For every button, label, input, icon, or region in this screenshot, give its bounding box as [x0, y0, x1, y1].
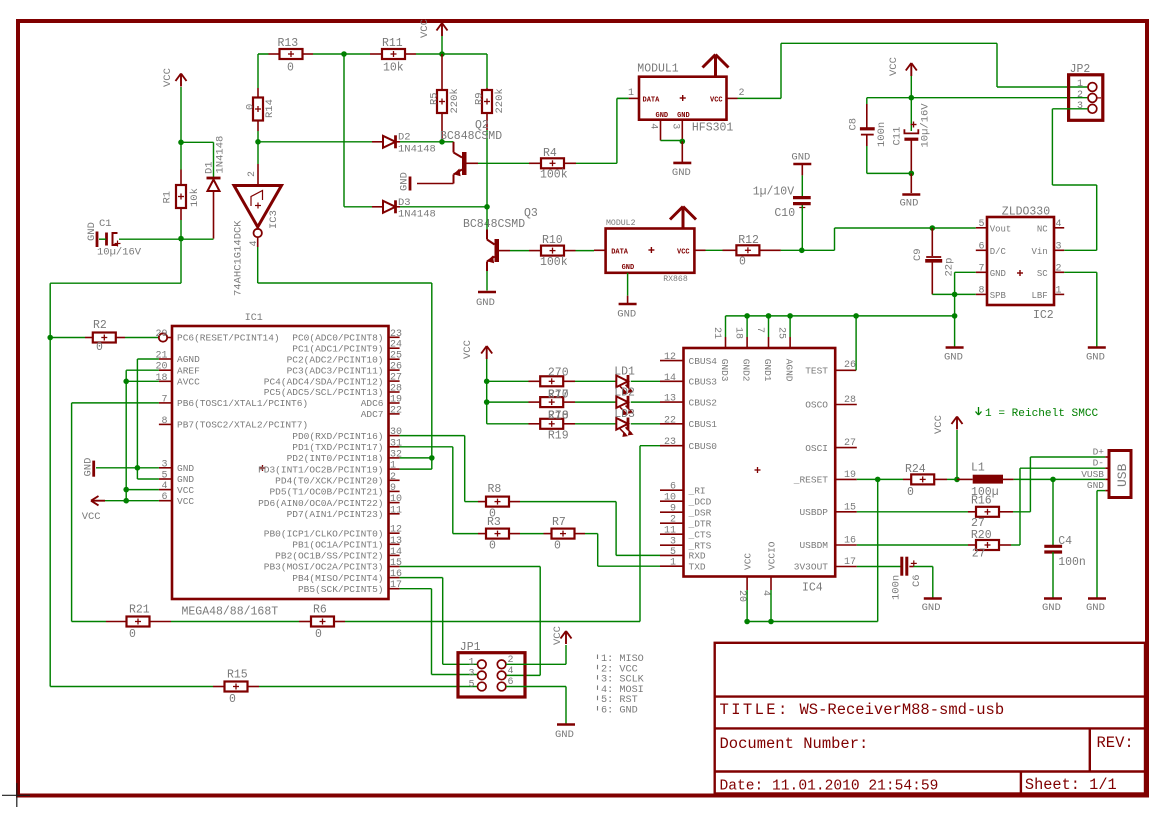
- svg-text:GND2: GND2: [741, 359, 752, 382]
- svg-text:74AHC1G14DCK: 74AHC1G14DCK: [233, 220, 245, 296]
- svg-text:PB2(OC1B/SS/PCINT2): PB2(OC1B/SS/PCINT2): [275, 551, 383, 562]
- IC1 pin 16 PB4: [389, 577, 400, 579]
- wire rail to R9 drop: [442, 53, 487, 55]
- IC4 pin 15 USBDP: [835, 511, 857, 513]
- svg-text:ADC6: ADC6: [361, 398, 384, 409]
- svg-text:Vin: Vin: [1031, 247, 1047, 257]
- IC1 pin 10 PD6: [389, 502, 400, 504]
- resistor R18 270: [529, 401, 541, 403]
- svg-text:PC3(ADC3/PCINT11): PC3(ADC3/PCINT11): [287, 365, 384, 376]
- svg-text:R14: R14: [264, 99, 276, 118]
- svg-text:10: 10: [664, 493, 676, 504]
- svg-text:270: 270: [548, 367, 569, 380]
- svg-text:6: 6: [978, 241, 984, 252]
- svg-text:220k: 220k: [494, 88, 506, 113]
- wire junction to D1 branch: [181, 141, 214, 143]
- title block row line above Date: [715, 770, 1145, 772]
- svg-text:OSCI: OSCI: [805, 443, 828, 454]
- svg-text:23: 23: [390, 329, 402, 340]
- svg-text:PB7(TOSC2/XTAL2/PCINT7): PB7(TOSC2/XTAL2/PCINT7): [177, 420, 308, 431]
- node junction VCC/L1: [954, 477, 960, 483]
- wire PB4 MISO to JP1 pin1: [400, 577, 443, 579]
- IC1 pin 15 PB3: [389, 566, 400, 568]
- wire USBDM to R20: [857, 544, 968, 546]
- svg-text:DATA: DATA: [643, 97, 661, 105]
- node junction rail/D3 drop: [341, 51, 347, 57]
- IC1 pin 13 PB1: [389, 543, 400, 545]
- svg-text:10k: 10k: [189, 188, 201, 207]
- IC4 pin 27 OSCI: [835, 447, 857, 449]
- svg-text:0: 0: [907, 486, 914, 499]
- IC1 pin 5 GND: [159, 478, 172, 480]
- svg-text:27: 27: [844, 438, 856, 449]
- svg-text:0: 0: [129, 628, 136, 641]
- ground GND at Q3 emitter: [478, 291, 496, 294]
- svg-text:VCC: VCC: [162, 68, 174, 87]
- svg-text:23: 23: [664, 437, 676, 448]
- node junction VCC pin20: [744, 619, 750, 625]
- svg-text:R9: R9: [474, 92, 486, 105]
- wire JP1 pin6 to GND: [506, 686, 566, 688]
- IC1 pin 14 PB2: [389, 554, 400, 556]
- svg-text:20: 20: [155, 362, 167, 373]
- svg-text:PD5(T1/OC0B/PCINT21): PD5(T1/OC0B/PCINT21): [269, 487, 383, 498]
- svg-text:9: 9: [670, 504, 676, 515]
- svg-text:GND: GND: [990, 269, 1006, 279]
- svg-text:VCC: VCC: [552, 626, 564, 645]
- LED LD1: [616, 376, 628, 388]
- IC4 pin 6 _RI: [660, 489, 684, 491]
- svg-text:GND: GND: [656, 112, 669, 120]
- svg-text:10k: 10k: [383, 62, 404, 75]
- node junction TEST drop: [853, 313, 859, 319]
- IC1 pin 23 PC0: [389, 336, 400, 338]
- svg-text:TXD: TXD: [689, 561, 706, 572]
- svg-text:VCC: VCC: [933, 415, 945, 434]
- svg-text:R21: R21: [129, 604, 150, 617]
- svg-text:R2: R2: [93, 319, 107, 332]
- svg-text:28: 28: [390, 384, 402, 395]
- svg-text:1N4148: 1N4148: [215, 136, 227, 174]
- IC1 pin 22 ADC7: [389, 413, 400, 415]
- MODUL1 pin 2 VCC: [727, 97, 738, 99]
- wire junction down to R1: [180, 142, 182, 169]
- wire GND vertical: [954, 272, 956, 346]
- antenna arrow MODUL1: [714, 56, 717, 77]
- svg-text:PB5(SCK/PCINT5): PB5(SCK/PCINT5): [298, 584, 384, 595]
- svg-text:JP1: JP1: [460, 641, 481, 654]
- wire MODUL1 gnd pins join: [661, 140, 683, 142]
- svg-text:GND: GND: [177, 474, 194, 485]
- svg-text:27: 27: [972, 548, 986, 561]
- svg-text:GND: GND: [617, 309, 636, 321]
- IC2 pin 8 SPB: [976, 293, 987, 295]
- wire VCC stem to junction: [956, 430, 958, 479]
- node junction D2/R5/Q2: [439, 139, 445, 145]
- wire MODUL1 DATA net down to R4 row: [617, 97, 629, 99]
- svg-text:3: 3: [670, 123, 681, 129]
- wire junction to C8: [867, 97, 912, 99]
- svg-text:SC: SC: [1037, 269, 1048, 279]
- resistor R3 0: [478, 533, 486, 535]
- capacitor C9 22p: [931, 228, 933, 256]
- IC4 top pins GND3/GND2/GND1/AGND: [725, 337, 727, 348]
- svg-text:25: 25: [390, 351, 402, 362]
- ground GND below C6: [924, 597, 942, 600]
- wire junction right to D2: [258, 141, 372, 143]
- svg-text:30: 30: [390, 427, 402, 438]
- capacitor C10 1u/10V: [801, 175, 803, 197]
- LED LD3: [616, 418, 628, 430]
- svg-text:VCC: VCC: [743, 553, 754, 570]
- svg-text:GND: GND: [1042, 602, 1061, 614]
- IC IC4 box: [684, 348, 836, 577]
- svg-text:ZLDO330: ZLDO330: [1002, 206, 1050, 219]
- svg-text:2: 2: [247, 171, 258, 177]
- IC1 pin 31 PD1: [389, 446, 400, 448]
- wire PD0 to R8: [400, 435, 465, 437]
- wire R8 to IC4 RXD: [520, 501, 616, 503]
- svg-text:220k: 220k: [449, 88, 461, 113]
- origin cross IC2: [1017, 272, 1023, 274]
- resistor R21 0: [72, 621, 106, 623]
- resistor R8 0: [465, 501, 478, 503]
- wire Q2 base to R4: [478, 162, 529, 164]
- wire vertical x344 to D3: [343, 54, 345, 207]
- svg-text:R15: R15: [227, 669, 248, 682]
- wire VCC/VCCIO to rail: [746, 590, 748, 622]
- IC4 pin 17 3V3OUT: [835, 566, 857, 568]
- svg-text:GND: GND: [476, 297, 495, 309]
- connector JP1 box: [458, 653, 525, 697]
- IC2 pin 5 Vout: [976, 227, 987, 229]
- title block divider Sheet: [1020, 772, 1022, 794]
- title block row line above TITLE: [715, 695, 1145, 697]
- svg-text:R13: R13: [278, 37, 299, 50]
- JP2 pin 1: [1088, 83, 1097, 92]
- IC4 pin 12 CBUS4: [660, 360, 684, 362]
- IC1 pin 20 AREF: [159, 369, 172, 371]
- svg-text:Vout: Vout: [990, 224, 1012, 234]
- node junction R14/IC3 input: [255, 139, 261, 145]
- svg-text:_CTS: _CTS: [688, 529, 712, 540]
- wire R24 to VCC junction: [947, 478, 957, 480]
- wire R20 to D-: [1011, 544, 1020, 546]
- svg-text:17: 17: [844, 557, 856, 568]
- svg-text:CBUS1: CBUS1: [689, 419, 718, 430]
- wire Q3 base to R10: [510, 250, 529, 252]
- resistor R14 0 (vertical): [257, 88, 259, 98]
- IC1 pin 30 PD0: [389, 435, 400, 437]
- resistor R13 0 (horizontal): [258, 53, 269, 55]
- JP1 pin 5: [478, 682, 487, 691]
- IC1 pin 26 PC3: [389, 369, 400, 371]
- svg-text:AGND: AGND: [177, 354, 200, 365]
- wire R3 to R7: [520, 533, 544, 535]
- svg-text:14: 14: [664, 373, 676, 384]
- node junction AGND: [787, 313, 793, 319]
- svg-text:MODUL1: MODUL1: [637, 63, 679, 76]
- svg-text:R1: R1: [162, 191, 174, 204]
- svg-text:4: 4: [648, 123, 659, 129]
- wire VCC stem: [910, 76, 912, 98]
- supply VCC arrow (pointing left): [91, 496, 99, 501]
- svg-text:_DTR: _DTR: [688, 518, 712, 529]
- svg-text:25: 25: [776, 327, 787, 339]
- svg-text:12: 12: [390, 525, 402, 536]
- node junction MODUL1 gnd: [680, 139, 686, 145]
- svg-text:GND: GND: [622, 264, 635, 272]
- node junction VCCIO pin4: [768, 619, 774, 625]
- svg-text:D/C: D/C: [990, 247, 1007, 257]
- IC1 pin 1 PD3: [389, 468, 400, 470]
- wire IC2 SC pin2 to GND: [1064, 271, 1097, 273]
- origin cross IC1: [260, 467, 266, 469]
- resistor R2 0: [50, 337, 85, 339]
- svg-text:AREF: AREF: [177, 365, 200, 376]
- svg-text:LD1: LD1: [614, 365, 635, 378]
- wire R12 to junction: [781, 249, 802, 251]
- svg-text:MODUL2: MODUL2: [606, 219, 636, 228]
- IC2 pin 7 GND: [976, 271, 987, 273]
- IC4 pin 22 CBUS1: [660, 423, 684, 425]
- svg-text:C9: C9: [912, 248, 924, 261]
- svg-text:DATA: DATA: [611, 249, 629, 257]
- resistor R12 0: [723, 249, 737, 251]
- svg-text:GND1: GND1: [762, 359, 773, 382]
- svg-text:R8: R8: [488, 483, 502, 496]
- svg-text:R12: R12: [738, 234, 759, 247]
- svg-text:7: 7: [978, 263, 984, 274]
- resistor R11 10k (horizontal): [370, 53, 382, 55]
- JP1 pin 2: [497, 660, 506, 669]
- svg-text:19: 19: [844, 470, 856, 481]
- wire R19 to LED LD3: [575, 423, 616, 425]
- node junction VCC pin6: [123, 498, 129, 504]
- ground GND at Q2 emitter (rotated): [417, 183, 454, 185]
- IC1 pin 19 ADC6: [389, 402, 400, 404]
- wire D2 to Q2 junction: [400, 141, 442, 143]
- IC4 pin 3 _RTS: [660, 544, 684, 546]
- JP2 pin 3: [1088, 104, 1097, 113]
- wire to GND symbol: [681, 141, 683, 162]
- svg-text:15: 15: [844, 502, 856, 513]
- resistor R7 0: [544, 533, 552, 535]
- svg-text:R24: R24: [905, 463, 926, 476]
- svg-text:Q3: Q3: [524, 207, 538, 220]
- svg-text:6: 6: [670, 482, 676, 493]
- IC4 pin 1 TXD: [660, 565, 684, 567]
- svg-text:18: 18: [155, 373, 167, 384]
- IC1 pin 29 PC6: [167, 337, 172, 339]
- svg-text:1 = Reichelt SMCC: 1 = Reichelt SMCC: [985, 408, 1099, 420]
- svg-text:IC1: IC1: [245, 313, 263, 324]
- svg-text:C8: C8: [848, 118, 860, 131]
- svg-text:4: 4: [760, 590, 771, 596]
- wire to IC2 pin5: [932, 227, 976, 229]
- svg-text:GND: GND: [791, 152, 810, 164]
- svg-text:18: 18: [733, 327, 744, 339]
- svg-text:GND: GND: [555, 729, 574, 741]
- wire LD1 to IC4: [631, 380, 660, 382]
- bus wire IC4 ground top: [726, 315, 955, 317]
- svg-text:1: 1: [390, 461, 396, 472]
- diode D1 1N4148 (vertical, cathode up): [207, 177, 221, 180]
- svg-text:20: 20: [736, 590, 747, 602]
- wire VCC stem to LED rows: [486, 359, 488, 424]
- USB pin GND: [1105, 490, 1109, 492]
- wire 3V3OUT to C6: [857, 566, 902, 568]
- wire R17 to LED LD1: [575, 380, 616, 382]
- capacitor C8 100n: [866, 104, 868, 128]
- resistor R20 27: [968, 544, 976, 546]
- svg-text:PB6(TOSC1/XTAL1/PCINT6): PB6(TOSC1/XTAL1/PCINT6): [177, 398, 308, 409]
- wire R21 to R6: [171, 621, 299, 623]
- node junction C8/C11 gnd: [909, 171, 915, 177]
- svg-text:24: 24: [390, 340, 402, 351]
- svg-text:D-: D-: [1093, 458, 1104, 469]
- svg-text:GND: GND: [672, 167, 691, 179]
- svg-text:100k: 100k: [540, 256, 568, 269]
- svg-text:1: 1: [628, 88, 634, 99]
- svg-text:8: 8: [161, 416, 167, 427]
- svg-text:2: 2: [390, 472, 396, 483]
- wire C8 down to gnd row: [866, 146, 868, 173]
- svg-text:13: 13: [664, 394, 676, 405]
- svg-text:CBUS4: CBUS4: [689, 356, 718, 367]
- capacitor C4 100n: [1052, 479, 1054, 546]
- svg-text:VCC: VCC: [177, 485, 194, 496]
- wire AREF row: [126, 369, 159, 371]
- wire junction to IC2 Vout riser: [802, 249, 835, 251]
- wire to GND below C11: [910, 173, 912, 193]
- node junction VCC rail R5: [439, 51, 445, 57]
- svg-text:PD3(INT1/OC2B/PCINT19): PD3(INT1/OC2B/PCINT19): [258, 464, 383, 475]
- MODUL2 pin VCC: [694, 249, 705, 251]
- svg-text:VCC: VCC: [677, 249, 690, 257]
- svg-text:C10: C10: [774, 207, 795, 220]
- node junction D3/R9/Q3: [484, 204, 490, 210]
- wire IC2 GND pin7: [955, 271, 976, 273]
- node junction GND2: [744, 313, 750, 319]
- svg-text:R11: R11: [382, 37, 403, 50]
- IC4 pin 11 _CTS: [660, 533, 684, 535]
- svg-text:_RESET: _RESET: [793, 475, 829, 486]
- node junction AVCC: [123, 379, 129, 385]
- IC1 pin 7 PB6: [159, 402, 172, 404]
- svg-text:GND: GND: [1086, 352, 1105, 364]
- svg-text:VCC: VCC: [888, 57, 900, 76]
- supply VCC arrow top-middle: [437, 23, 443, 31]
- wire R16 to D+: [1013, 511, 1030, 513]
- wire C9 bottom to SPB: [932, 293, 976, 295]
- wire PB6 to left vertical: [72, 402, 159, 404]
- svg-text:4: 4: [161, 481, 167, 492]
- node junction Vout/C9: [930, 225, 936, 231]
- svg-text:270: 270: [548, 389, 569, 402]
- wire pin4 row: [126, 489, 159, 491]
- wire L1 to VUSB: [1014, 478, 1106, 480]
- ground GND below C4: [1044, 597, 1062, 600]
- wire PB3 MOSI to JP1 pin4: [400, 566, 541, 568]
- IC1 pin 32 PD2: [389, 457, 400, 459]
- svg-text:4: 4: [1056, 219, 1062, 230]
- svg-text:C11: C11: [892, 127, 904, 146]
- node junction GND pins: [135, 465, 141, 471]
- supply VCC arrow top-left: [176, 74, 182, 82]
- svg-text:R5: R5: [429, 92, 441, 105]
- node junction C10/R12: [799, 248, 805, 254]
- svg-text:RX868: RX868: [663, 275, 688, 284]
- wire _RESET to riser: [857, 478, 878, 480]
- svg-text:13: 13: [390, 536, 402, 547]
- wire R6 to CBUS0: [345, 621, 640, 623]
- svg-text:R3: R3: [487, 516, 501, 529]
- ground GND below USB: [1088, 597, 1106, 600]
- svg-text:VCC: VCC: [462, 340, 474, 359]
- resistor R16 27: [968, 511, 976, 513]
- svg-text:WS-ReceiverM88-smd-usb: WS-ReceiverM88-smd-usb: [800, 701, 1005, 719]
- wire PD1 to R3: [400, 446, 453, 448]
- wire PB5 SCK to JP1 pin3: [400, 588, 432, 590]
- resistor R19 270: [529, 423, 541, 425]
- wire C10 to junction: [801, 205, 803, 250]
- svg-text:VCC: VCC: [177, 496, 194, 507]
- wire USB GND down: [1097, 490, 1105, 492]
- wire USBDP to R16: [857, 511, 968, 513]
- resistor R6 0: [299, 621, 311, 623]
- IC4 pin 16 USBDM: [835, 544, 857, 546]
- diode D3 1N4148: [372, 206, 383, 208]
- ground GND below C11: [902, 193, 920, 196]
- JP1 pin 3: [478, 671, 487, 680]
- IC4 pin 5 RXD: [660, 554, 684, 556]
- LED LD2: [616, 396, 628, 408]
- wire JP1 pin4 jog: [506, 674, 540, 676]
- svg-text:LD2: LD2: [614, 386, 635, 399]
- resistor R9 220k (vertical): [486, 88, 488, 90]
- op-amp IC3 74AHC1G14DCK (inverter): [234, 186, 282, 228]
- svg-text:100k: 100k: [540, 169, 568, 182]
- svg-text:Date: 11.01.2010 21:54:59: Date: 11.01.2010 21:54:59: [720, 779, 939, 795]
- IC4 pin 10 _DCD: [660, 500, 684, 502]
- svg-text:C4: C4: [1058, 535, 1072, 548]
- wire C1 to junction row: [119, 238, 181, 240]
- wire R15 to JP1 pin5: [259, 686, 478, 688]
- wire rail junction to R11: [344, 53, 370, 55]
- node junction bus to GND vertical: [952, 313, 958, 319]
- svg-text:_DCD: _DCD: [688, 496, 712, 507]
- IC4 pin 2 _DTR: [660, 522, 684, 524]
- svg-text:0: 0: [229, 693, 236, 706]
- wire long left vertical x50: [49, 283, 51, 686]
- svg-text:100n: 100n: [876, 122, 888, 147]
- IC4 bottom pins VCC/VCCIO: [746, 577, 748, 591]
- svg-text:AGND: AGND: [784, 359, 795, 382]
- svg-text:22: 22: [664, 415, 676, 426]
- IC1 pin 9 PD5: [389, 490, 400, 492]
- IC1 pin 11 PD7: [389, 513, 400, 515]
- USB connector box: [1109, 451, 1131, 498]
- diode D2 1N4148: [372, 141, 383, 143]
- svg-text:2: 2: [1077, 90, 1083, 101]
- svg-text:0: 0: [739, 256, 746, 269]
- svg-text:0: 0: [287, 62, 294, 75]
- svg-text:1N4148: 1N4148: [398, 144, 436, 156]
- USB pin VUSB: [1105, 478, 1109, 480]
- svg-text:22p: 22p: [944, 258, 956, 277]
- svg-text:CBUS0: CBUS0: [689, 441, 718, 452]
